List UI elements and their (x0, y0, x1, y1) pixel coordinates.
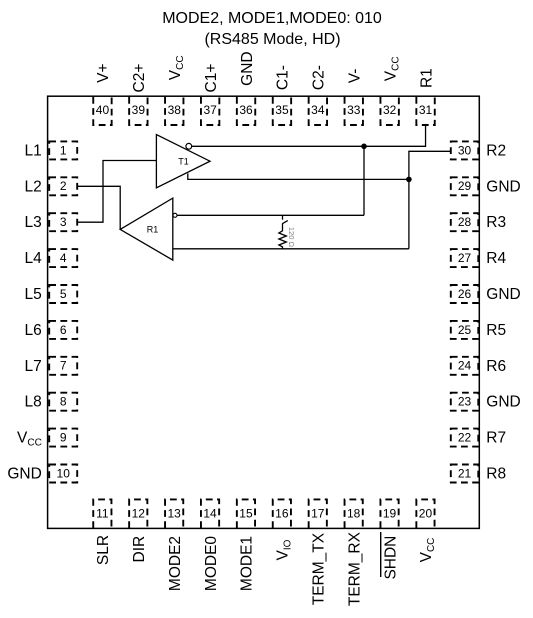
svg-text:35: 35 (275, 103, 289, 117)
svg-text:MODE0: MODE0 (203, 536, 220, 592)
svg-text:L6: L6 (25, 322, 42, 339)
svg-text:C1-: C1- (275, 65, 292, 90)
svg-text:38: 38 (168, 103, 182, 117)
svg-text:MODE2: MODE2 (167, 536, 184, 591)
svg-text:16: 16 (275, 507, 289, 521)
svg-text:120 Ω: 120 Ω (287, 227, 296, 248)
svg-text:T1: T1 (178, 156, 189, 166)
svg-text:C2-: C2- (311, 65, 328, 90)
svg-text:25: 25 (458, 323, 472, 337)
svg-text:L8: L8 (25, 394, 42, 411)
svg-text:18: 18 (347, 507, 361, 521)
svg-text:SHDN: SHDN (382, 536, 399, 580)
svg-text:R2: R2 (486, 142, 506, 159)
svg-text:28: 28 (458, 215, 472, 229)
svg-text:5: 5 (60, 287, 67, 301)
svg-text:L1: L1 (25, 142, 42, 159)
svg-text:4: 4 (60, 251, 67, 265)
svg-text:V-: V- (346, 69, 363, 84)
svg-text:L5: L5 (25, 286, 42, 303)
svg-text:13: 13 (167, 507, 181, 521)
svg-text:23: 23 (458, 395, 472, 409)
svg-text:33: 33 (347, 103, 361, 117)
svg-text:19: 19 (383, 507, 397, 521)
svg-text:27: 27 (458, 251, 472, 265)
svg-text:20: 20 (419, 507, 433, 521)
svg-text:37: 37 (203, 103, 217, 117)
svg-text:R8: R8 (486, 466, 506, 483)
svg-text:3: 3 (60, 215, 67, 229)
svg-text:29: 29 (458, 179, 472, 193)
svg-text:C2+: C2+ (131, 64, 148, 93)
svg-text:6: 6 (60, 323, 67, 337)
svg-text:GND: GND (486, 394, 520, 411)
svg-text:(RS485 Mode, HD): (RS485 Mode, HD) (204, 31, 340, 48)
svg-text:9: 9 (60, 431, 67, 445)
svg-text:32: 32 (383, 103, 397, 117)
svg-text:10: 10 (57, 466, 71, 480)
svg-text:MODE1: MODE1 (239, 536, 256, 591)
svg-text:12: 12 (132, 507, 146, 521)
svg-text:40: 40 (96, 103, 110, 117)
svg-text:R5: R5 (486, 322, 506, 339)
svg-text:L4: L4 (25, 250, 43, 267)
svg-text:TERM_TX: TERM_TX (310, 532, 327, 605)
svg-text:8: 8 (60, 395, 67, 409)
svg-text:GND: GND (7, 466, 41, 483)
svg-text:MODE2, MODE1,MODE0: 010: MODE2, MODE1,MODE0: 010 (162, 10, 382, 27)
svg-text:SLR: SLR (95, 535, 112, 565)
svg-text:R4: R4 (486, 250, 506, 267)
svg-text:21: 21 (458, 466, 472, 480)
svg-text:34: 34 (311, 103, 325, 117)
svg-text:1: 1 (60, 143, 67, 157)
svg-text:22: 22 (458, 431, 472, 445)
svg-text:7: 7 (60, 359, 67, 373)
svg-text:39: 39 (132, 103, 146, 117)
svg-text:14: 14 (203, 507, 217, 521)
svg-text:DIR: DIR (131, 536, 148, 563)
svg-text:26: 26 (458, 287, 472, 301)
svg-text:30: 30 (458, 143, 472, 157)
svg-text:R1: R1 (147, 224, 159, 234)
svg-text:24: 24 (458, 359, 472, 373)
svg-text:C1+: C1+ (203, 64, 220, 93)
svg-text:GND: GND (486, 286, 520, 303)
svg-text:V+: V+ (95, 64, 112, 83)
svg-text:17: 17 (311, 507, 325, 521)
svg-text:L2: L2 (25, 178, 42, 195)
svg-text:15: 15 (239, 507, 253, 521)
svg-text:36: 36 (239, 103, 253, 117)
svg-text:R6: R6 (486, 358, 506, 375)
svg-text:GND: GND (486, 178, 520, 195)
svg-text:GND: GND (239, 51, 256, 85)
svg-text:R1: R1 (418, 68, 435, 88)
svg-text:31: 31 (419, 103, 433, 117)
svg-text:L3: L3 (25, 214, 42, 231)
svg-text:R7: R7 (486, 430, 506, 447)
svg-text:11: 11 (96, 507, 109, 521)
svg-text:TERM_RX: TERM_RX (346, 531, 363, 606)
svg-text:R3: R3 (486, 214, 506, 231)
svg-text:2: 2 (60, 179, 67, 193)
svg-text:L7: L7 (25, 358, 42, 375)
